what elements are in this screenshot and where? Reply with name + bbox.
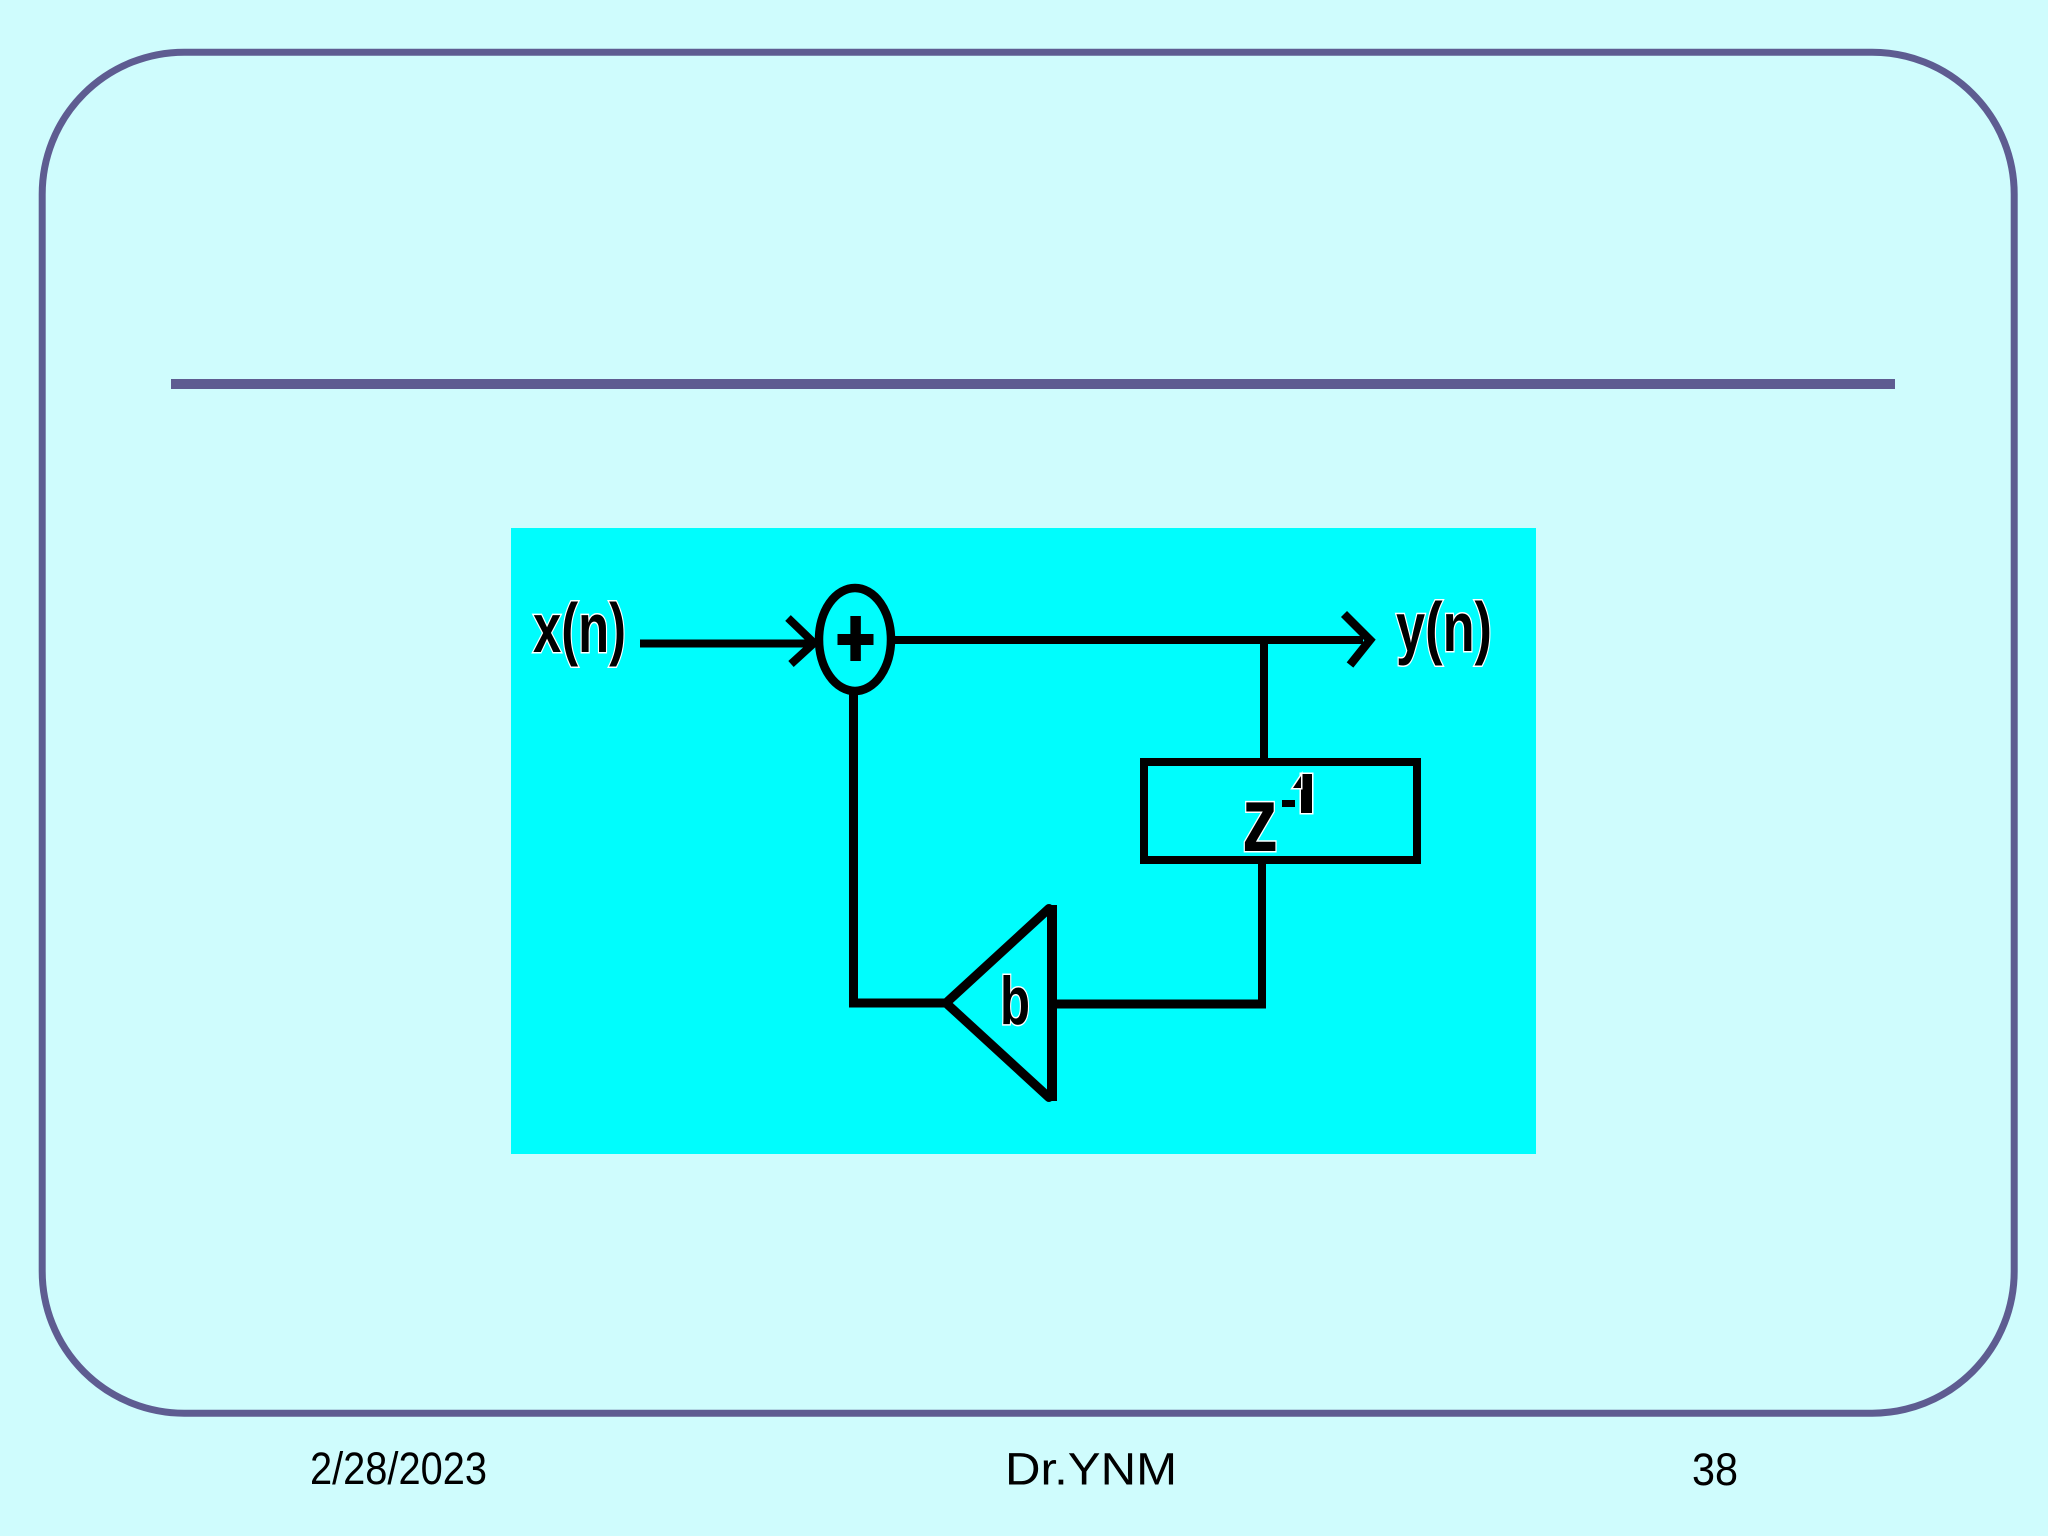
title underline rule [171,379,1895,389]
wire from delay block down to feedback line [1258,864,1266,1004]
svg-text:Dr.YNM: Dr.YNM [1005,1444,1177,1495]
svg-text:38: 38 [1692,1444,1738,1495]
gain amplifier triangle b [1047,905,1057,1101]
arrowhead into adder [788,618,814,664]
wire up from feedback to adder bottom [849,693,858,1007]
svg-text:z: z [1242,769,1278,871]
cyan diagram panel [511,528,1536,1154]
plus sign of adder [838,634,874,645]
superscript -1 of delay block [1282,774,1312,813]
wire from adder to y(n) [891,636,1363,644]
svg-text:2/28/2023: 2/28/2023 [310,1443,487,1494]
arrowhead into y(n) [1344,614,1370,665]
wire from x(n) to adder [640,640,812,648]
svg-text:y(n): y(n) [1396,588,1492,666]
wire from gain apex to left [849,999,944,1008]
wire from output node down to delay block [1260,636,1268,762]
delay block z^-1 [1144,762,1417,860]
svg-text:x(n): x(n) [533,589,626,667]
adder U1 summing junction circle [819,588,891,691]
svg-text:b: b [1000,963,1030,1039]
feedback wire from delay to gain triangle [1052,1000,1266,1009]
